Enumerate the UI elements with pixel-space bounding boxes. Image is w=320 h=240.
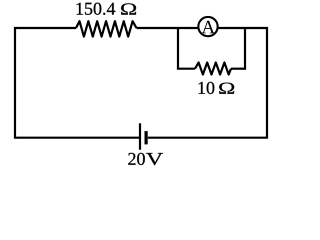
label 10 ohm omega glyph: [219, 83, 234, 94]
ammeter letter A: [202, 21, 215, 34]
wire: right drop of shunt branch (junction node on top wire): [244, 28, 246, 69]
label 10 ohm value: [199, 82, 215, 94]
wire: outer loop left side (top-left corner, left wire, bottom-left run to battery): [15, 28, 139, 138]
label 150.4 ohm omega glyph: [121, 3, 136, 14]
wire: top wire from R1 to ammeter: [137, 27, 199, 29]
wire: top wire from ammeter to right junction: [218, 27, 246, 29]
resistor R2 10 ohm zigzag: [195, 63, 231, 75]
label 20V value: [128, 153, 145, 165]
wire: left drop of shunt branch (junction node on top wire): [177, 28, 179, 69]
battery B1 negative plate (short thick): [145, 131, 148, 144]
label 20V letter V glyph: [146, 153, 163, 165]
ammeter A1 circle: [198, 17, 217, 36]
battery B1 positive plate (tall thin): [139, 123, 141, 149]
wire: shunt branch lower-left segment: [177, 68, 195, 70]
wire: outer loop right side (top-right run, right wire, bottom run to battery): [148, 28, 267, 138]
label 150.4 ohm value: [77, 3, 116, 15]
resistor R1 150.4 ohm zigzag: [76, 21, 137, 36]
wire: shunt branch lower-right segment: [231, 68, 246, 70]
